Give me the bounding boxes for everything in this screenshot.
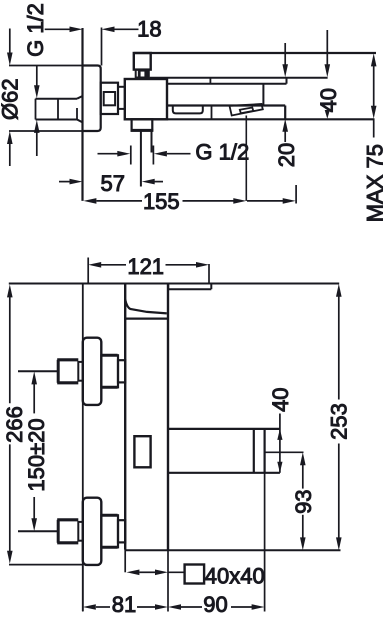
svg-text:90: 90 (203, 592, 227, 617)
svg-text:150±20: 150±20 (24, 418, 49, 491)
svg-text:81: 81 (112, 592, 136, 617)
svg-text:40: 40 (316, 88, 341, 112)
svg-text:121: 121 (127, 254, 164, 279)
svg-text:18: 18 (137, 17, 161, 42)
svg-text:20: 20 (274, 143, 299, 167)
svg-text:93: 93 (291, 489, 316, 513)
svg-text:MAX 75: MAX 75 (362, 144, 387, 222)
svg-text:57: 57 (101, 171, 125, 196)
svg-text:G 1/2: G 1/2 (195, 140, 249, 165)
svg-text:155: 155 (143, 189, 180, 214)
svg-text:40x40: 40x40 (205, 563, 265, 588)
svg-text:253: 253 (326, 403, 351, 440)
svg-text:G 1/2: G 1/2 (23, 3, 48, 57)
svg-text:40: 40 (268, 387, 293, 411)
svg-text:Ø62: Ø62 (0, 78, 23, 120)
